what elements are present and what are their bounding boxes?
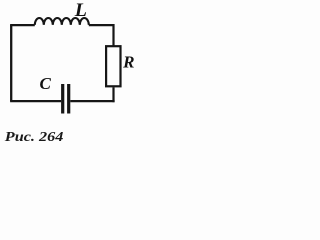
svg-text:Рис. 264: Рис. 264 [5,130,64,145]
wire: top-right horizontal segment [89,24,114,26]
resistor R1 body [106,46,120,86]
wire: bottom-left horizontal segment from capacitor [10,100,61,102]
svg-text:R: R [122,53,134,72]
svg-text:C: C [40,74,52,93]
wire: bottom-right horizontal segment to capacitor [70,100,114,102]
wire: top-left horizontal segment to inductor [10,24,35,26]
svg-text:L: L [74,0,87,21]
capacitor C1 left plate [61,84,64,114]
inductor L1 coil: 6 humps [35,18,89,25]
wire: right vertical from top corner to resistor [112,24,114,46]
wire: left vertical side of loop [10,25,12,101]
wire: right vertical from resistor to bottom corner [112,87,114,102]
capacitor C1 right plate [67,84,70,114]
